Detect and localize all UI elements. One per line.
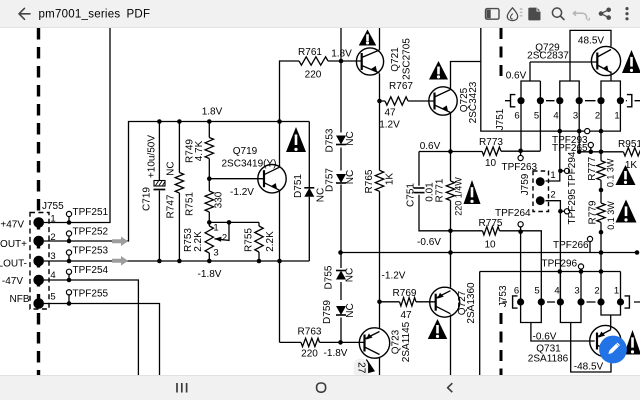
svg-text:27: 27 xyxy=(356,362,367,374)
svg-text:D751: D751 xyxy=(293,174,304,198)
svg-text:2SC3419(Y): 2SC3419(Y) xyxy=(221,159,276,170)
svg-text:2.2K: 2.2K xyxy=(265,231,276,252)
svg-text:1: 1 xyxy=(50,214,55,225)
svg-text:R769: R769 xyxy=(393,288,417,299)
svg-text:-0.6V: -0.6V xyxy=(533,332,557,343)
svg-text:-48.5V: -48.5V xyxy=(574,362,604,373)
svg-text:0.6V: 0.6V xyxy=(420,141,441,152)
svg-text:TPF296: TPF296 xyxy=(542,259,578,270)
svg-text:PDF: PDF xyxy=(127,9,151,21)
svg-text:2SA1186: 2SA1186 xyxy=(528,354,569,365)
svg-text:3: 3 xyxy=(573,111,578,122)
svg-text:+47V: +47V xyxy=(0,220,24,231)
svg-text:NC: NC xyxy=(345,170,356,184)
svg-text:R765: R765 xyxy=(364,169,375,193)
svg-text:2: 2 xyxy=(550,190,555,201)
svg-text:J755: J755 xyxy=(42,201,64,212)
svg-text:0.6V: 0.6V xyxy=(506,71,527,82)
svg-text:TPF251: TPF251 xyxy=(73,207,109,218)
svg-text:4: 4 xyxy=(554,286,559,297)
svg-text:D759: D759 xyxy=(322,300,333,324)
svg-text:4: 4 xyxy=(50,270,55,281)
svg-text:R751: R751 xyxy=(185,192,196,216)
svg-text:Q719: Q719 xyxy=(233,146,258,157)
svg-text:47: 47 xyxy=(400,310,412,321)
svg-text:48.5V: 48.5V xyxy=(578,36,604,47)
svg-text:47: 47 xyxy=(384,108,396,119)
svg-text:1.2V: 1.2V xyxy=(379,120,400,131)
svg-text:1: 1 xyxy=(550,170,555,181)
svg-text:-1.2V: -1.2V xyxy=(230,187,254,198)
svg-text:4.7K: 4.7K xyxy=(194,140,205,161)
svg-text:1.8V: 1.8V xyxy=(202,107,223,118)
svg-text:1K: 1K xyxy=(385,173,396,186)
svg-text:2: 2 xyxy=(595,111,600,122)
svg-text:D755: D755 xyxy=(324,265,335,289)
svg-text:J753: J753 xyxy=(498,285,509,307)
svg-text:R779: R779 xyxy=(588,200,599,224)
svg-text:TPF255: TPF255 xyxy=(73,289,109,300)
svg-text:1: 1 xyxy=(614,286,619,297)
svg-text:220: 220 xyxy=(305,70,322,81)
svg-text:-1.2V: -1.2V xyxy=(382,271,406,282)
svg-text:TPF254: TPF254 xyxy=(73,265,109,276)
svg-text:NC: NC xyxy=(345,131,356,145)
svg-text:2.2K: 2.2K xyxy=(193,231,204,252)
svg-text:R777: R777 xyxy=(587,156,598,180)
svg-text:2: 2 xyxy=(594,286,599,297)
svg-text:220 1/4W: 220 1/4W xyxy=(454,177,464,216)
svg-text:R767: R767 xyxy=(389,81,413,92)
svg-text:D757: D757 xyxy=(325,168,336,192)
svg-text:1.8V: 1.8V xyxy=(331,49,352,60)
svg-text:330: 330 xyxy=(214,191,225,208)
svg-text:NFB: NFB xyxy=(10,294,30,305)
svg-text:C751: C751 xyxy=(406,183,417,207)
svg-text:2: 2 xyxy=(222,233,227,244)
svg-text:LOUT-: LOUT- xyxy=(0,259,27,270)
svg-text:NC: NC xyxy=(166,161,177,175)
svg-text:D753: D753 xyxy=(325,128,336,152)
svg-text:3: 3 xyxy=(574,286,579,297)
svg-text:0.1 3W: 0.1 3W xyxy=(606,201,616,230)
svg-text:4: 4 xyxy=(553,111,558,122)
svg-text:2SC3423: 2SC3423 xyxy=(468,81,479,123)
svg-text:R763: R763 xyxy=(298,327,322,338)
svg-text:2SA1360: 2SA1360 xyxy=(466,282,477,324)
svg-text:C719: C719 xyxy=(142,187,153,211)
svg-text:1K: 1K xyxy=(625,160,638,171)
svg-text:-47V: -47V xyxy=(2,276,23,287)
svg-text:2SA1145: 2SA1145 xyxy=(401,321,412,362)
svg-text:TPF263: TPF263 xyxy=(502,162,538,173)
svg-text:6: 6 xyxy=(514,111,519,122)
svg-text:TPF294: TPF294 xyxy=(567,151,578,187)
svg-text:2: 2 xyxy=(50,232,55,243)
svg-text:TPF264: TPF264 xyxy=(495,208,531,219)
svg-text:5: 5 xyxy=(534,111,539,122)
svg-text:10: 10 xyxy=(484,240,496,251)
svg-text:J751: J751 xyxy=(495,108,506,130)
svg-text:-1.8V: -1.8V xyxy=(198,269,222,280)
svg-text:3: 3 xyxy=(50,251,55,262)
svg-text:+10u/50V: +10u/50V xyxy=(147,135,158,178)
svg-text:Q723: Q723 xyxy=(391,329,402,354)
svg-text:TPF295: TPF295 xyxy=(567,188,578,224)
svg-text:220: 220 xyxy=(301,349,318,360)
svg-text:-1.8V: -1.8V xyxy=(324,348,348,359)
svg-text:pm7001_series: pm7001_series xyxy=(39,9,121,21)
svg-text:TPF253: TPF253 xyxy=(73,246,109,257)
svg-text:5: 5 xyxy=(50,292,55,303)
svg-text:R771: R771 xyxy=(435,178,446,202)
svg-text:2SC2705: 2SC2705 xyxy=(402,38,413,80)
svg-text:R761: R761 xyxy=(298,47,322,58)
svg-text:-0.6V: -0.6V xyxy=(417,237,441,248)
svg-text:R951: R951 xyxy=(618,139,640,150)
svg-text:1: 1 xyxy=(213,223,218,234)
svg-text:2SC2837: 2SC2837 xyxy=(527,51,569,62)
svg-text:J759: J759 xyxy=(520,173,531,195)
svg-text:TPF252: TPF252 xyxy=(73,227,109,238)
svg-text:3: 3 xyxy=(213,248,218,259)
svg-text:LOUT+: LOUT+ xyxy=(0,239,27,250)
svg-text:0.1 3W: 0.1 3W xyxy=(606,158,616,187)
svg-text:NC: NC xyxy=(345,268,356,282)
svg-text:R747: R747 xyxy=(166,194,177,218)
svg-text:Q721: Q721 xyxy=(390,47,401,72)
svg-text:R775: R775 xyxy=(479,218,503,229)
svg-text:R773: R773 xyxy=(479,137,503,148)
svg-text:6: 6 xyxy=(514,286,519,297)
svg-text:NC: NC xyxy=(345,303,356,317)
svg-text:10: 10 xyxy=(485,158,497,169)
svg-text:5: 5 xyxy=(534,286,539,297)
svg-text:TPF266: TPF266 xyxy=(553,240,589,251)
svg-text:R755: R755 xyxy=(244,228,255,252)
svg-text:1: 1 xyxy=(614,111,619,122)
